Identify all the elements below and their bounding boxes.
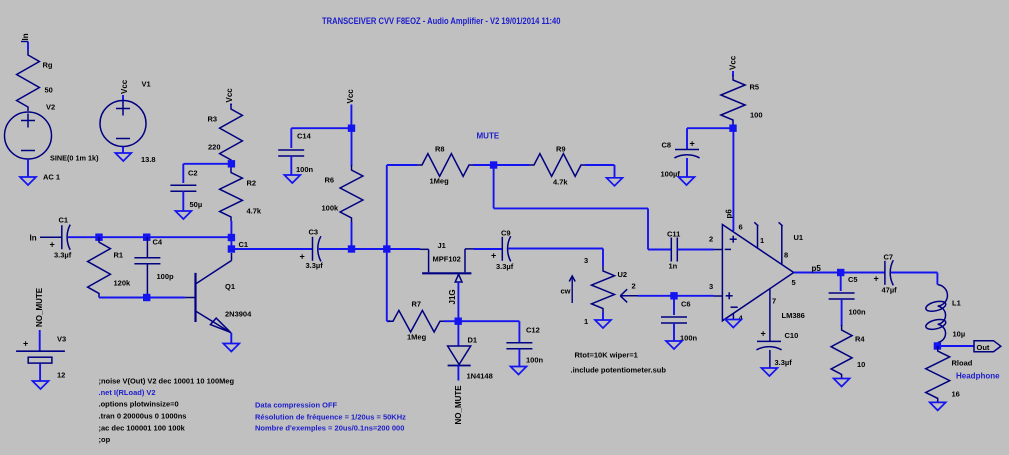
svg-text:C1: C1 — [239, 240, 249, 249]
svg-text:2N3904: 2N3904 — [225, 310, 252, 319]
label C10 — [785, 331, 799, 340]
svg-text:NO_MUTE: NO_MUTE — [454, 385, 463, 425]
wire — [686, 158, 688, 177]
svg-text:2: 2 — [709, 235, 713, 244]
wire — [585, 165, 615, 178]
node junction R5/C8/pin6 — [729, 125, 736, 132]
svg-text:;ac dec 100001 100 100k: ;ac dec 100001 100 100k — [99, 424, 186, 433]
ground — [284, 175, 300, 183]
svg-text:1n: 1n — [669, 262, 678, 271]
ground — [20, 177, 36, 185]
pin 2 — [632, 282, 636, 291]
svg-text:+: + — [23, 339, 28, 349]
wire — [27, 159, 29, 177]
label L1 — [952, 299, 961, 308]
wire C10 lower lead — [769, 350, 771, 368]
pin 2 — [709, 235, 713, 244]
label V1 — [142, 80, 151, 89]
value SINE(0 1m 1k) — [50, 154, 99, 163]
pin 7 — [772, 297, 776, 306]
value 1N4148 — [467, 372, 493, 381]
svg-text:C8: C8 — [662, 141, 672, 150]
svg-text:R6: R6 — [325, 176, 335, 185]
capacitor C2 — [170, 185, 196, 191]
svg-text:U1: U1 — [794, 233, 804, 242]
pin 3 — [584, 256, 588, 265]
svg-text:cw: cw — [561, 287, 571, 296]
node junction Vcc/C14/R6 — [348, 125, 355, 132]
plus sign — [761, 329, 766, 339]
ground — [666, 341, 682, 349]
wire — [122, 95, 124, 102]
capacitor C8 (polarized) — [674, 150, 699, 158]
ground — [761, 368, 777, 376]
svg-text:50µ: 50µ — [190, 200, 203, 209]
value 3.3µf — [306, 261, 324, 270]
svg-text:1Meg: 1Meg — [407, 333, 427, 342]
wire — [68, 236, 99, 238]
svg-text:J1: J1 — [438, 241, 446, 250]
svg-text:C1: C1 — [59, 216, 69, 225]
value 50 — [45, 86, 53, 95]
svg-text:R9: R9 — [556, 145, 566, 154]
value 100n — [680, 334, 698, 343]
label V3 — [57, 335, 66, 344]
wire — [494, 164, 529, 166]
label C7 — [884, 253, 894, 262]
node junction C4 top — [143, 234, 150, 241]
svg-text:1: 1 — [760, 236, 764, 245]
wire — [937, 345, 974, 347]
label R3 — [208, 115, 218, 124]
svg-text:10: 10 — [857, 360, 865, 369]
svg-text:100: 100 — [750, 111, 763, 120]
directive net — [99, 388, 156, 397]
plus sign — [23, 339, 28, 349]
label V2 — [46, 103, 55, 112]
svg-text:C10: C10 — [785, 331, 799, 340]
svg-text:C5: C5 — [848, 275, 858, 284]
svg-text:AC 1: AC 1 — [43, 173, 60, 182]
label R8 — [435, 145, 445, 154]
value 3.3µf — [496, 262, 514, 271]
svg-text:C12: C12 — [526, 326, 540, 335]
svg-text:C9: C9 — [501, 229, 511, 238]
label C9 — [501, 229, 511, 238]
port label In (rotated) — [21, 33, 30, 41]
svg-text:R8: R8 — [435, 145, 445, 154]
wire — [840, 273, 842, 292]
svg-text:C14: C14 — [297, 132, 312, 141]
ground — [115, 153, 131, 161]
capacitor C12 — [506, 343, 532, 349]
ground — [511, 367, 527, 375]
svg-text:Rtot=10K wiper=1: Rtot=10K wiper=1 — [575, 351, 638, 360]
net label J1G (rotated) — [448, 289, 457, 304]
pin 3 — [709, 282, 713, 291]
value 2N3904 — [225, 310, 252, 319]
wire — [231, 248, 312, 250]
label C1 — [59, 216, 69, 225]
potentiometer U2 — [592, 266, 615, 313]
svg-text:MUTE: MUTE — [477, 132, 500, 141]
node junction output — [934, 342, 941, 349]
svg-text:L1: L1 — [952, 299, 961, 308]
wire — [458, 321, 519, 342]
svg-text:In: In — [30, 234, 37, 243]
label C12 — [526, 326, 540, 335]
label C8 — [662, 141, 672, 150]
wire — [444, 320, 458, 322]
node junction R8/R9 — [490, 161, 497, 168]
label R7 — [412, 300, 422, 309]
wire — [182, 191, 184, 211]
svg-text:Résolution de fréquence = 1/20: Résolution de fréquence = 1/20us = 50KHz — [255, 413, 406, 422]
svg-text:C6: C6 — [681, 300, 691, 309]
label R2 — [247, 179, 257, 188]
wire — [351, 222, 353, 249]
value 47µf — [882, 286, 898, 295]
svg-text:Headphone: Headphone — [956, 372, 1000, 381]
svg-text:In: In — [21, 33, 30, 40]
value 1n — [669, 262, 678, 271]
resistor R9 — [529, 154, 585, 177]
directive noise — [99, 377, 235, 386]
value 100n — [296, 165, 314, 174]
svg-text:Nombre d'exemples = 20us/0.1ns: Nombre d'exemples = 20us/0.1ns=200 000 — [255, 424, 404, 433]
wire — [518, 349, 520, 367]
wire — [27, 42, 29, 51]
wire — [230, 221, 232, 238]
svg-text:Vcc: Vcc — [729, 55, 738, 70]
wire — [687, 128, 733, 149]
value 100n — [849, 308, 867, 317]
plus sign — [50, 240, 55, 250]
label C2 — [188, 169, 198, 178]
resistor R1 — [88, 237, 111, 297]
svg-text:12: 12 — [57, 371, 65, 380]
value 13.8 — [141, 155, 156, 164]
net label Headphone — [956, 372, 1000, 381]
label C4 — [153, 238, 163, 247]
svg-text:C4: C4 — [153, 238, 163, 247]
wire — [351, 128, 353, 166]
wire — [387, 164, 417, 166]
wire — [290, 156, 292, 175]
ground — [223, 344, 239, 352]
wire — [732, 71, 734, 76]
net label Vcc (rotated) — [729, 55, 738, 70]
wire pin6 feed — [732, 128, 734, 231]
svg-text:3: 3 — [709, 282, 713, 291]
capacitor C3 (polarized) — [313, 236, 321, 261]
net label p6 (rotated) — [725, 209, 734, 219]
svg-text:1: 1 — [584, 317, 588, 326]
svg-text:+: + — [491, 251, 496, 261]
wire — [39, 330, 41, 351]
port Out — [974, 341, 1001, 352]
pin 1 — [760, 236, 764, 245]
value 120k — [114, 279, 132, 288]
label D1 — [468, 336, 478, 345]
ground — [175, 211, 191, 219]
label R4 — [855, 335, 865, 344]
svg-text:V1: V1 — [142, 80, 151, 89]
svg-text:3.3µf: 3.3µf — [306, 261, 324, 270]
comment resolution — [255, 413, 406, 422]
svg-text:MPF102: MPF102 — [433, 255, 461, 264]
ground — [679, 177, 695, 185]
label C14 — [297, 132, 312, 141]
label C3 — [309, 228, 319, 237]
comment data compression — [255, 401, 338, 410]
svg-text:D1: D1 — [468, 336, 478, 345]
svg-text:.options plotwinsize=0: .options plotwinsize=0 — [99, 400, 179, 409]
net label NO_MUTE (rotated) — [454, 385, 463, 425]
wire — [473, 164, 494, 166]
label C5 — [848, 275, 858, 284]
directive ac — [99, 424, 186, 433]
svg-text:+: + — [761, 329, 766, 339]
net label Vcc (rotated) — [120, 79, 129, 94]
svg-text:p5: p5 — [812, 264, 822, 273]
value 100µf — [661, 170, 681, 179]
svg-text:47µf: 47µf — [882, 286, 898, 295]
label Rg — [43, 61, 53, 70]
capacitor C7 (polarized) — [885, 260, 893, 285]
node junction p5 — [837, 269, 844, 276]
net label p5 — [812, 264, 822, 273]
label C6 — [681, 300, 691, 309]
wire — [648, 249, 671, 251]
label cw — [561, 287, 571, 296]
svg-text:100p: 100p — [157, 272, 175, 281]
label U2 — [618, 270, 628, 279]
svg-text:.net I(RLoad) V2: .net I(RLoad) V2 — [99, 388, 156, 397]
value 16 — [952, 390, 960, 399]
svg-text:;op: ;op — [99, 435, 111, 444]
svg-text:Vcc: Vcc — [346, 89, 355, 104]
resistor R7 — [388, 310, 444, 332]
wire — [230, 238, 232, 250]
svg-text:100n: 100n — [526, 356, 544, 365]
wire — [794, 272, 841, 274]
node junction R6 bottom — [348, 245, 355, 252]
pin 8 — [784, 251, 788, 260]
svg-text:C3: C3 — [309, 228, 319, 237]
wire — [387, 249, 390, 321]
node junction C1/R1 — [95, 234, 102, 241]
plus sign — [491, 251, 496, 261]
value 100p — [157, 272, 175, 281]
value 220 — [208, 143, 221, 152]
svg-text:J1G: J1G — [448, 289, 457, 304]
ground pin4 — [725, 320, 741, 328]
wire — [122, 147, 124, 154]
directive op — [99, 435, 111, 444]
value 4.7k — [553, 178, 568, 187]
ground — [930, 402, 946, 410]
svg-text:120k: 120k — [114, 279, 132, 288]
wire — [841, 272, 885, 274]
svg-text:TRANSCEIVER CVV F8EOZ - Audio: TRANSCEIVER CVV F8EOZ - Audio Amplifier … — [322, 16, 561, 26]
value 100 — [750, 111, 763, 120]
directive tran — [99, 412, 187, 421]
value LM386 — [782, 311, 805, 320]
wire — [678, 249, 714, 251]
label R6 — [325, 176, 335, 185]
svg-text:LM386: LM386 — [782, 311, 805, 320]
svg-text:13.8: 13.8 — [141, 155, 156, 164]
svg-text:V3: V3 — [57, 335, 66, 344]
wire — [39, 364, 41, 382]
pin 6 — [739, 223, 743, 232]
svg-text:100k: 100k — [322, 204, 340, 213]
svg-text:R3: R3 — [208, 115, 218, 124]
svg-text:+: + — [690, 139, 695, 149]
svg-text:R2: R2 — [247, 179, 257, 188]
pin 4 — [739, 314, 744, 323]
wire — [674, 295, 714, 297]
inductor L1 — [925, 285, 948, 343]
label U1 — [794, 233, 804, 242]
wire — [99, 236, 231, 238]
battery V3 — [16, 351, 65, 363]
wire mute feed — [494, 165, 648, 250]
resistor R3 — [220, 104, 243, 164]
node junction C4 bottom — [143, 294, 150, 301]
svg-text:C2: C2 — [188, 169, 198, 178]
voltage source V2 — [5, 112, 52, 159]
capacitor C6 — [661, 317, 687, 323]
wire — [602, 313, 604, 321]
wire bottom rail — [99, 297, 185, 299]
svg-text:5: 5 — [792, 278, 796, 287]
resistor R8 — [417, 154, 473, 177]
value 10µ — [953, 330, 966, 339]
svg-text:50: 50 — [45, 86, 53, 95]
svg-text:Rg: Rg — [43, 61, 53, 70]
svg-text:+: + — [874, 274, 879, 284]
resistor R6 — [340, 165, 363, 222]
capacitor C14 — [278, 150, 304, 156]
svg-text:.tran 0 20000us 0 1000ns: .tran 0 20000us 0 1000ns — [99, 412, 187, 421]
capacitor C1 (polarized) — [62, 225, 70, 250]
plus sign — [874, 274, 879, 284]
note Rtot — [575, 351, 638, 360]
svg-text:1N4148: 1N4148 — [467, 372, 493, 381]
wire — [673, 296, 675, 315]
svg-text:C7: C7 — [884, 253, 894, 262]
svg-text:3.3µf: 3.3µf — [54, 251, 72, 260]
capacitor C9 (polarized) — [502, 236, 510, 261]
comment nombre — [255, 424, 404, 433]
svg-text:;noise V(Out) V2 dec 10001 10: ;noise V(Out) V2 dec 10001 10 100Meg — [99, 377, 235, 386]
resistor R4 — [831, 325, 852, 379]
value 1Meg — [430, 177, 450, 186]
svg-text:V2: V2 — [46, 103, 55, 112]
plus sign — [690, 139, 695, 149]
value 4.7k — [247, 207, 262, 216]
label J1 — [438, 241, 446, 250]
resistor Rload — [926, 346, 950, 402]
net label Vcc (rotated) — [225, 88, 234, 103]
wire — [386, 165, 388, 249]
svg-text:R5: R5 — [750, 83, 760, 92]
svg-text:Out: Out — [977, 343, 990, 352]
resistor R2 — [220, 168, 243, 222]
capacitor C4 — [134, 237, 160, 297]
svg-text:220: 220 — [208, 143, 221, 152]
wire — [673, 323, 675, 341]
svg-text:3.3µf: 3.3µf — [496, 262, 514, 271]
svg-text:+: + — [50, 240, 55, 250]
svg-text:100µf: 100µf — [661, 170, 681, 179]
svg-text:3: 3 — [584, 256, 588, 265]
wire — [387, 248, 420, 250]
capacitor C10 (polarized) — [756, 341, 781, 349]
label Q1 — [225, 282, 235, 291]
svg-text:R1: R1 — [114, 251, 124, 260]
wire — [291, 128, 351, 148]
transistor Q1 — [185, 253, 232, 333]
wire — [183, 164, 231, 183]
wire pin7 lead — [769, 322, 771, 341]
ground — [834, 379, 850, 387]
capacitor C11 — [671, 238, 677, 262]
pin 5 — [792, 278, 796, 287]
svg-text:Vcc: Vcc — [120, 79, 129, 94]
node junction R3/R2/C2 — [228, 160, 235, 167]
ground — [33, 381, 49, 389]
wire — [891, 273, 937, 285]
value 1Meg — [407, 333, 427, 342]
wire — [841, 299, 843, 326]
wire — [40, 236, 62, 238]
diode D1 — [448, 346, 471, 366]
node junction R7/D1/C12 — [455, 318, 462, 325]
directive options — [99, 400, 179, 409]
svg-text:2: 2 — [632, 282, 636, 291]
wire — [457, 366, 459, 381]
svg-text:8: 8 — [784, 251, 788, 260]
net label MUTE — [477, 132, 500, 141]
label R9 — [556, 145, 566, 154]
svg-text:+: + — [300, 252, 305, 262]
net label Vcc (rotated) — [346, 89, 355, 104]
ground — [595, 320, 611, 328]
net label C1 — [239, 240, 249, 249]
op-amp U1 — [714, 222, 794, 322]
title text — [322, 16, 561, 26]
value 50µ — [190, 200, 203, 209]
resistor R5 — [721, 75, 745, 124]
net label In — [30, 234, 37, 243]
value 100k — [322, 204, 340, 213]
value 10 — [857, 360, 865, 369]
wiper arrow — [620, 289, 638, 302]
wire — [457, 282, 459, 321]
net label NO_MUTE (rotated) — [35, 287, 44, 327]
svg-text:Q1: Q1 — [225, 282, 235, 291]
wire — [230, 104, 232, 106]
wire — [937, 343, 939, 347]
wire — [230, 333, 232, 344]
svg-text:C11: C11 — [667, 230, 680, 239]
wire — [638, 295, 674, 297]
node junction input row / collector — [228, 234, 235, 241]
wire — [457, 321, 459, 345]
